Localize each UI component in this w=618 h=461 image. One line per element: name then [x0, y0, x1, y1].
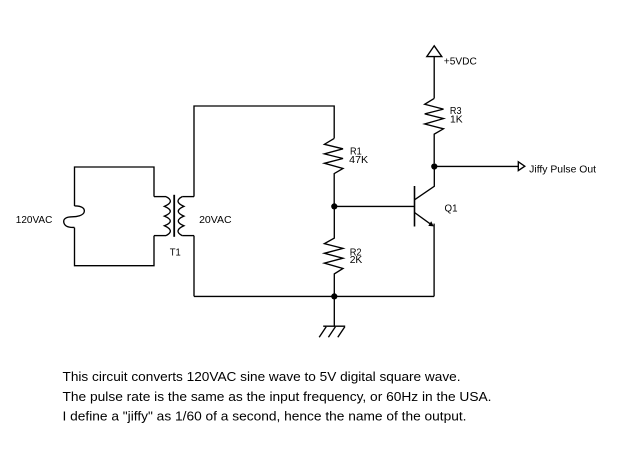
svg-text:Q1: Q1 — [445, 204, 458, 215]
svg-text:I define a "jiffy" as 1/60 of: I define a "jiffy" as 1/60 of a second, … — [63, 409, 467, 424]
svg-text:1K: 1K — [450, 115, 463, 126]
svg-text:20VAC: 20VAC — [199, 215, 232, 226]
svg-text:This circuit converts 120VAC s: This circuit converts 120VAC sine wave t… — [63, 369, 461, 384]
svg-text:Jiffy Pulse Out: Jiffy Pulse Out — [529, 164, 596, 175]
svg-text:+5VDC: +5VDC — [444, 56, 478, 67]
svg-text:2K: 2K — [350, 255, 363, 266]
svg-text:47K: 47K — [349, 155, 368, 166]
svg-text:The pulse rate is the same as: The pulse rate is the same as the input … — [63, 389, 492, 404]
svg-text:120VAC: 120VAC — [16, 215, 53, 226]
svg-text:T1: T1 — [170, 247, 181, 258]
